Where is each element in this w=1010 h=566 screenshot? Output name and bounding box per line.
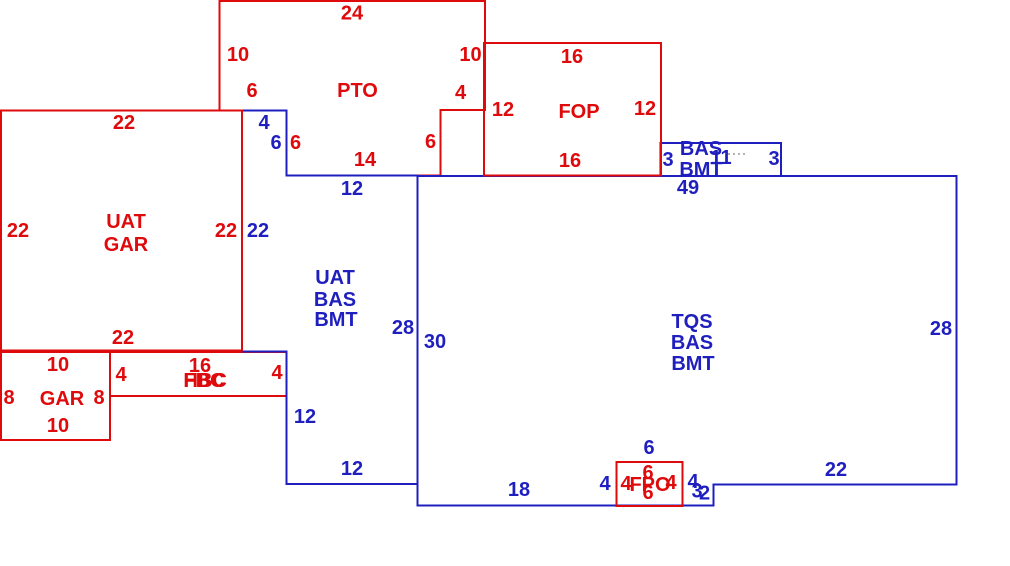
svg-text:28: 28 — [392, 317, 414, 339]
svg-text:28: 28 — [930, 318, 952, 340]
svg-text:16: 16 — [559, 150, 581, 172]
dotted gray mark — [728, 153, 746, 155]
svg-text:6: 6 — [270, 132, 281, 154]
svg-text:12: 12 — [294, 406, 316, 428]
svg-text:22: 22 — [215, 220, 237, 242]
svg-text:4: 4 — [665, 472, 677, 494]
area UAT GAR outline — [1, 111, 242, 351]
svg-text:2: 2 — [699, 483, 710, 505]
svg-text:6: 6 — [290, 132, 301, 154]
svg-text:16: 16 — [561, 46, 583, 68]
svg-text:4: 4 — [271, 362, 283, 384]
svg-text:10: 10 — [227, 44, 249, 66]
svg-text:18: 18 — [508, 479, 530, 501]
svg-text:BMT: BMT — [671, 353, 714, 375]
svg-text:4: 4 — [599, 473, 611, 495]
svg-text:4: 4 — [455, 82, 467, 104]
svg-text:UAT: UAT — [106, 211, 146, 233]
svg-text:BAS: BAS — [314, 289, 356, 311]
svg-text:6: 6 — [246, 80, 257, 102]
svg-text:BMT: BMT — [679, 159, 722, 181]
svg-text:12: 12 — [341, 178, 363, 200]
svg-text:12: 12 — [634, 98, 656, 120]
area FOP outline — [484, 43, 661, 176]
area GAR outline — [1, 352, 110, 440]
svg-text:FBC: FBC — [184, 370, 225, 392]
svg-text:FOP: FOP — [558, 101, 599, 123]
svg-text:24: 24 — [341, 3, 364, 25]
svg-text:UAT: UAT — [315, 267, 355, 289]
svg-text:3: 3 — [662, 149, 673, 171]
area TQS BAS BMT outline — [418, 176, 957, 506]
svg-text:22: 22 — [825, 459, 847, 481]
svg-text:10: 10 — [47, 354, 69, 376]
svg-text:22: 22 — [7, 220, 29, 242]
svg-text:BMT: BMT — [314, 309, 357, 331]
area BAS BMT small rect outline — [661, 143, 782, 176]
area PTO outline — [220, 1, 486, 176]
svg-text:6: 6 — [642, 482, 653, 504]
svg-text:4: 4 — [258, 112, 270, 134]
svg-text:22: 22 — [112, 327, 134, 349]
svg-text:10: 10 — [459, 44, 481, 66]
svg-text:BAS: BAS — [671, 332, 713, 354]
svg-text:8: 8 — [3, 387, 14, 409]
svg-text:22: 22 — [247, 220, 269, 242]
svg-text:BAS: BAS — [680, 138, 722, 160]
svg-text:14: 14 — [354, 149, 377, 171]
svg-text:GAR: GAR — [40, 388, 85, 410]
svg-text:3: 3 — [768, 148, 779, 170]
svg-text:TQS: TQS — [671, 311, 712, 333]
svg-text:6: 6 — [643, 437, 654, 459]
area FBC strip outline — [110, 352, 287, 396]
svg-text:6: 6 — [425, 131, 436, 153]
svg-text:8: 8 — [93, 387, 104, 409]
svg-text:12: 12 — [492, 99, 514, 121]
svg-text:PTO: PTO — [337, 80, 378, 102]
svg-text:22: 22 — [113, 112, 135, 134]
svg-text:12: 12 — [341, 458, 363, 480]
svg-text:4: 4 — [115, 364, 127, 386]
area UAT BAS BMT outline — [242, 111, 418, 485]
svg-text:30: 30 — [424, 331, 446, 353]
area FPO outline — [617, 462, 683, 506]
svg-text:GAR: GAR — [104, 234, 149, 256]
svg-text:10: 10 — [47, 415, 69, 437]
